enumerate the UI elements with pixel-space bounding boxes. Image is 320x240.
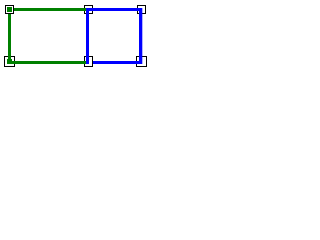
handle H1 top-left: white fill bbox=[6, 6, 14, 14]
green bottom edge over bottom-left handle bbox=[8, 61, 15, 64]
handle H3 top-right: white fill bbox=[138, 6, 146, 14]
blue rectangle R2 left edge (over junction handles) bbox=[86, 8, 89, 64]
circuit-style drawing: two stroked rectangles (green, blue) with black corner handles bbox=[0, 0, 151, 74]
green rectangle R1 right edge (shared with blue left) bbox=[86, 8, 89, 64]
background bbox=[0, 0, 151, 74]
blue rectangle R2 top edge (over handles) bbox=[86, 8, 142, 11]
green left edge over bottom-left handle bbox=[8, 56, 11, 64]
handle H4 green core bbox=[7, 59, 12, 64]
green top edge visible over junction handle bbox=[84, 8, 86, 11]
green rectangle R1 left edge bbox=[8, 8, 11, 64]
green bottom edge visible over bottom-junction handle bbox=[84, 61, 86, 64]
green rectangle R1 bottom edge bbox=[8, 61, 89, 64]
handle H2 top-junction: white fill bbox=[85, 6, 93, 14]
blue rectangle R2 right edge (over right handles) bbox=[139, 8, 142, 64]
blue right edge anti-alias column bbox=[142, 8, 143, 64]
handle H6 bottom-right: white fill bbox=[137, 57, 147, 67]
blue rectangle R2 bottom edge segment (starts after bottom-junction handle) bbox=[93, 61, 142, 64]
handle H1 green core bbox=[7, 7, 12, 12]
handle H5 bottom-junction: white fill bbox=[85, 57, 93, 67]
handle H4 bottom-left: white fill bbox=[5, 57, 15, 67]
green rectangle R1 top edge bbox=[8, 8, 89, 11]
